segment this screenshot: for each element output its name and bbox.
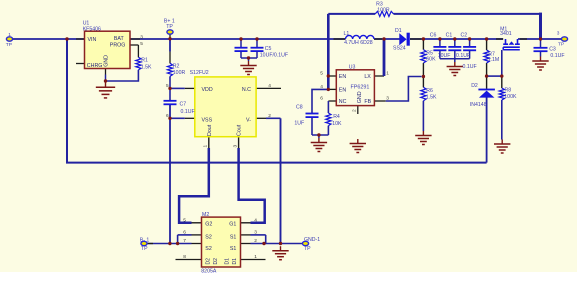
svg-text:TP: TP <box>558 42 564 48</box>
svg-text:4: 4 <box>268 83 271 89</box>
svg-text:GND-1: GND-1 <box>304 237 320 243</box>
svg-text:100R: 100R <box>173 70 186 76</box>
svg-text:7: 7 <box>183 238 186 244</box>
svg-text:CHRG: CHRG <box>87 63 103 69</box>
svg-text:D2: D2 <box>206 258 212 265</box>
svg-text:VSS: VSS <box>202 117 213 123</box>
svg-text:TP: TP <box>304 246 311 252</box>
svg-text:2: 2 <box>351 109 357 112</box>
svg-text:1UF: 1UF <box>294 120 304 126</box>
svg-text:PROG: PROG <box>110 43 126 49</box>
svg-text:S1: S1 <box>230 246 237 252</box>
svg-text:4.7UH 6D28: 4.7UH 6D28 <box>344 40 373 46</box>
svg-text:GND: GND <box>104 55 110 67</box>
svg-text:5: 5 <box>183 218 186 224</box>
svg-text:FP6291: FP6291 <box>351 84 370 90</box>
svg-text:S2: S2 <box>205 246 212 252</box>
svg-text:0.1UF: 0.1UF <box>463 64 477 70</box>
svg-text:N.C: N.C <box>242 87 251 93</box>
svg-text:IN4148: IN4148 <box>470 102 487 108</box>
svg-text:R1: R1 <box>141 57 148 63</box>
svg-text:GND: GND <box>357 91 363 103</box>
svg-text:1: 1 <box>386 71 389 77</box>
svg-text:TP: TP <box>141 246 148 252</box>
svg-text:R4: R4 <box>333 114 340 120</box>
svg-text:8205A: 8205A <box>201 269 217 275</box>
svg-text:G2: G2 <box>205 222 212 228</box>
svg-text:6: 6 <box>320 96 323 102</box>
svg-text:1: 1 <box>8 32 11 38</box>
svg-text:M2: M2 <box>202 212 209 218</box>
svg-text:EN: EN <box>339 88 347 94</box>
svg-text:R5: R5 <box>426 50 433 56</box>
svg-text:R2: R2 <box>173 64 180 70</box>
svg-text:R6: R6 <box>426 88 433 94</box>
svg-text:4: 4 <box>320 84 323 90</box>
svg-text:C8: C8 <box>296 105 303 111</box>
svg-text:6: 6 <box>166 113 169 119</box>
svg-text:Dout: Dout <box>207 124 213 136</box>
svg-text:Cout: Cout <box>237 124 243 136</box>
svg-text:R8: R8 <box>505 88 512 94</box>
svg-text:D2: D2 <box>213 258 219 265</box>
svg-text:BAT: BAT <box>114 36 125 42</box>
svg-text:1.5K: 1.5K <box>141 65 152 71</box>
svg-text:10UF: 10UF <box>438 53 451 59</box>
svg-text:C7: C7 <box>180 102 187 108</box>
svg-text:U3: U3 <box>349 65 356 71</box>
svg-text:0.1UF: 0.1UF <box>181 109 195 115</box>
svg-text:3: 3 <box>557 30 560 36</box>
svg-text:100K: 100K <box>504 94 517 100</box>
svg-text:D1: D1 <box>225 258 231 265</box>
svg-text:C2: C2 <box>461 33 468 39</box>
svg-text:B- 1: B- 1 <box>140 238 150 244</box>
svg-text:0.1UF: 0.1UF <box>456 53 470 59</box>
svg-text:S12FU2: S12FU2 <box>190 70 209 76</box>
svg-text:3: 3 <box>232 145 238 148</box>
svg-text:V-: V- <box>246 117 251 123</box>
svg-text:1: 1 <box>203 145 209 148</box>
svg-text:1.5K: 1.5K <box>426 94 437 100</box>
svg-text:G1: G1 <box>229 222 236 228</box>
svg-text:3: 3 <box>254 229 257 235</box>
svg-text:S1: S1 <box>230 235 237 241</box>
svg-text:D1: D1 <box>232 258 238 265</box>
svg-text:C6: C6 <box>430 33 437 39</box>
svg-text:SS24: SS24 <box>393 46 406 52</box>
svg-text:D2: D2 <box>471 83 478 89</box>
svg-text:100R: 100R <box>377 7 390 13</box>
svg-text:FB: FB <box>364 99 371 105</box>
svg-text:LX: LX <box>364 74 371 80</box>
svg-text:VIN: VIN <box>88 37 97 43</box>
svg-text:NC: NC <box>339 99 347 105</box>
svg-text:2: 2 <box>254 238 257 244</box>
svg-text:C5: C5 <box>265 46 272 52</box>
svg-text:C3: C3 <box>549 47 556 53</box>
svg-text:L1: L1 <box>344 31 350 37</box>
svg-text:3: 3 <box>386 96 389 102</box>
svg-text:4: 4 <box>254 218 257 224</box>
svg-text:6: 6 <box>183 229 186 235</box>
svg-text:8: 8 <box>183 254 186 260</box>
svg-text:3401: 3401 <box>500 31 512 37</box>
svg-text:5: 5 <box>140 41 143 47</box>
svg-text:KF5406: KF5406 <box>83 27 101 33</box>
svg-text:U1: U1 <box>83 21 90 27</box>
svg-text:60K: 60K <box>426 57 436 63</box>
svg-text:EN: EN <box>339 74 347 80</box>
svg-text:5: 5 <box>320 71 323 77</box>
svg-text:10K: 10K <box>332 121 342 127</box>
svg-text:3: 3 <box>140 34 143 40</box>
svg-text:TP: TP <box>166 24 173 30</box>
svg-text:VDD: VDD <box>202 87 213 93</box>
svg-text:D1: D1 <box>395 28 402 34</box>
svg-text:10UF/0.1UF: 10UF/0.1UF <box>260 53 288 59</box>
svg-text:1: 1 <box>254 254 257 260</box>
svg-text:TP: TP <box>6 42 12 48</box>
svg-text:0.1UF: 0.1UF <box>550 53 564 59</box>
svg-text:C1: C1 <box>446 33 453 39</box>
svg-text:2: 2 <box>268 113 271 119</box>
svg-text:1.1M: 1.1M <box>488 57 500 63</box>
svg-text:S2: S2 <box>205 235 212 241</box>
svg-text:5: 5 <box>166 83 169 89</box>
